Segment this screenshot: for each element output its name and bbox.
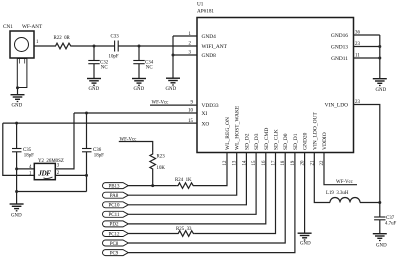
svg-text:GND13: GND13 [331, 45, 348, 51]
wire right gnd vertical [379, 35, 381, 79]
svg-text:C36: C36 [93, 148, 102, 153]
junction right gnd a [378, 45, 381, 48]
svg-text:13: 13 [233, 160, 238, 165]
junction XI C36 branch [85, 112, 88, 115]
svg-text:18pF: 18pF [24, 154, 34, 159]
svg-text:L19 3.3uH: L19 3.3uH [326, 191, 349, 196]
svg-text:WL_REG_ON: WL_REG_ON [225, 117, 231, 150]
inductor L19 [330, 198, 360, 203]
svg-text:VDDIO: VDDIO [322, 132, 328, 150]
capacitor C37 [374, 217, 385, 220]
wire WF-Vcc to pin 9 [150, 104, 197, 106]
svg-text:SD_CMD: SD_CMD [264, 128, 270, 150]
svg-text:18: 18 [281, 160, 286, 165]
svg-text:GND: GND [89, 87, 100, 92]
junction XO C35 branch [15, 122, 18, 125]
svg-text:36: 36 [355, 31, 360, 36]
wire C36 top branch [86, 113, 88, 148]
svg-text:NC: NC [101, 66, 108, 71]
capacitor C32 [88, 46, 99, 78]
ground under pin 20 [298, 233, 312, 246]
wire PB13 to R24 [128, 185, 177, 187]
junction node B [138, 45, 141, 48]
svg-text:PD2: PD2 [110, 223, 119, 228]
svg-text:18pF: 18pF [94, 154, 104, 159]
svg-text:R22 0R: R22 0R [54, 36, 71, 41]
svg-text:R24 1K: R24 1K [175, 178, 192, 183]
svg-text:AP6181: AP6181 [197, 9, 214, 15]
wire PC8 to IC pin 18 [128, 153, 285, 244]
svg-text:14: 14 [242, 160, 247, 165]
wire crystal pin 4 stub [17, 168, 35, 170]
svg-text:VDD33: VDD33 [202, 103, 219, 109]
wire IC pin 22 to WF-Vcc bar [324, 153, 357, 185]
wire IC pin 20 to ground [304, 153, 306, 233]
svg-text:NC: NC [146, 66, 153, 71]
svg-text:C37: C37 [386, 216, 395, 221]
svg-text:VIN_LDO_OUT: VIN_LDO_OUT [312, 111, 318, 150]
resistor R24 [177, 183, 195, 189]
port flag PD2 [103, 221, 129, 228]
svg-text:16: 16 [262, 160, 267, 165]
svg-text:VIN_LDO: VIN_LDO [325, 103, 348, 109]
svg-text:R23: R23 [157, 155, 166, 160]
junction crystal pin 2 to C36 line [85, 174, 88, 177]
wire R22 to node A [73, 45, 115, 47]
junction crystal pin 4 stub [15, 167, 18, 170]
capacitor C33 [115, 41, 119, 52]
svg-text:SD_D0: SD_D0 [283, 133, 289, 150]
wire node C to C37 [379, 203, 381, 217]
port flag PA8 [103, 192, 129, 199]
wire L19 to node C [360, 202, 380, 204]
wire XO pin 15 [3, 122, 197, 124]
wire CN1 to R22 [34, 45, 54, 47]
connector CN1 body [10, 31, 34, 88]
svg-text:17: 17 [272, 160, 277, 165]
svg-text:U1: U1 [197, 2, 204, 8]
wire PC9 to IC pin 19 [128, 153, 295, 253]
svg-text:PC11: PC11 [109, 213, 120, 218]
svg-text:SD_D3: SD_D3 [254, 133, 260, 150]
wire C35 bottom to gnd rail [16, 152, 18, 192]
svg-text:GND: GND [376, 244, 387, 249]
wire XI branch down to crystal pin 3 [55, 113, 74, 169]
crystal Y2 body [34, 163, 55, 179]
wire crystal pin 2 stub [55, 174, 86, 176]
svg-text:GND20: GND20 [303, 132, 309, 150]
wire IC right GND pin 36 [354, 34, 380, 36]
svg-text:GND16: GND16 [331, 33, 348, 39]
svg-text:XI: XI [202, 111, 208, 117]
junction right gnd b [378, 57, 381, 60]
svg-text:23: 23 [355, 100, 360, 105]
svg-text:WL_HOST_WAKE: WL_HOST_WAKE [235, 105, 241, 150]
svg-text:GND: GND [11, 214, 22, 219]
svg-text:SD_D2: SD_D2 [244, 133, 250, 150]
resistor R23 [150, 153, 156, 171]
port flag PC9 [103, 250, 129, 257]
svg-text:WF-ANT: WF-ANT [22, 24, 43, 30]
ground under C34 [132, 79, 146, 92]
wire IC right GND pin 23 [354, 46, 380, 48]
resistor R22 [54, 43, 73, 49]
svg-text:WIFI_ANT: WIFI_ANT [202, 44, 228, 50]
junction gnd rail drop [15, 190, 18, 193]
ground under C37 [373, 234, 387, 249]
resistor R25 [177, 231, 195, 237]
svg-text:GND: GND [134, 87, 145, 92]
wire IC right GND pin 11 [354, 57, 380, 59]
svg-text:C35: C35 [23, 148, 32, 153]
svg-text:SD_D1: SD_D1 [293, 133, 299, 150]
wire IC pin 3 GND stub [173, 54, 197, 56]
wire C36 bottom to gnd rail [86, 152, 88, 192]
svg-text:GND: GND [12, 103, 23, 108]
ground near IC pins 1-3 [166, 78, 181, 92]
wire PD2 to IC pin 16 [128, 153, 265, 224]
port flag PC11 [103, 211, 129, 218]
wire C33 to node B [118, 45, 197, 47]
svg-text:12: 12 [223, 160, 228, 165]
svg-text:SD_CLK: SD_CLK [274, 129, 280, 150]
svg-text:GND8: GND8 [202, 53, 217, 59]
svg-text:PB13: PB13 [108, 184, 120, 189]
wire IC pin 1 GND stub [173, 35, 197, 37]
wire C37 to ground [379, 220, 381, 234]
op-amp U1 body box [197, 18, 354, 153]
wire XI pin 10 [74, 112, 197, 114]
svg-text:GND: GND [376, 88, 387, 93]
svg-text:GND4: GND4 [202, 34, 217, 40]
junction node A [93, 45, 96, 48]
wire VIN_LDO pin 23 to node C [354, 105, 380, 203]
svg-text:11: 11 [355, 54, 360, 59]
svg-text:GND: GND [300, 242, 311, 247]
svg-text:C33: C33 [111, 35, 120, 40]
svg-text:4.7uF: 4.7uF [385, 222, 397, 227]
wire PC11 to IC pin 15 [128, 153, 256, 215]
svg-text:19: 19 [291, 160, 296, 165]
capacitor C34 [133, 46, 144, 78]
ground under crystal [10, 192, 24, 219]
svg-text:PA8: PA8 [110, 194, 119, 199]
port flag PC10 [103, 202, 129, 209]
port flag PC12 [103, 231, 129, 238]
wire crystal gnd rail [17, 191, 87, 193]
ground under C32 [87, 79, 101, 92]
ground under CN1 [11, 86, 25, 108]
ground right of IC [373, 79, 387, 93]
port flag PC8 [103, 240, 129, 247]
wire IC pin 21 to inductor [314, 153, 330, 203]
junction node C [378, 201, 381, 204]
port flag PB13 [103, 183, 129, 190]
svg-text:PC9: PC9 [110, 251, 119, 256]
wire PC10 to IC pin 14 [128, 153, 246, 205]
svg-text:10K: 10K [157, 166, 166, 171]
svg-text:23: 23 [355, 42, 360, 47]
wire PC12 to R25 [128, 233, 177, 235]
svg-text:PC8: PC8 [110, 242, 119, 247]
svg-text:PC12: PC12 [108, 232, 120, 237]
svg-text:GND11: GND11 [331, 56, 348, 62]
wire R23 to PB13 line [152, 171, 154, 186]
wire R25 to IC pin 17 [195, 153, 276, 234]
svg-text:PC10: PC10 [108, 204, 120, 209]
svg-text:GND: GND [166, 87, 177, 92]
svg-text:XO: XO [202, 122, 210, 128]
capacitor C36 [82, 149, 92, 152]
wire XO down left loop to crystal pin 1 [3, 123, 35, 175]
svg-text:R25 33: R25 33 [176, 227, 192, 232]
svg-text:15: 15 [252, 160, 257, 165]
svg-text:10pF: 10pF [109, 55, 119, 60]
capacitor C35 [12, 149, 22, 152]
svg-text:15: 15 [188, 119, 193, 124]
junction R23 PB13 [151, 184, 154, 187]
junction pin3 gnd [172, 54, 175, 57]
wire pin1-pin3 ground vertical [172, 36, 174, 78]
wire C35 top branch [16, 123, 18, 148]
svg-text:10: 10 [188, 109, 193, 114]
svg-text:JDF: JDF [37, 169, 51, 177]
wire R24 to IC pin 12 [195, 153, 228, 186]
wire WF-Vcc bar R23 [119, 142, 153, 153]
wire PA8 to IC pin 13 [128, 153, 236, 196]
svg-text:CN1: CN1 [3, 24, 13, 30]
